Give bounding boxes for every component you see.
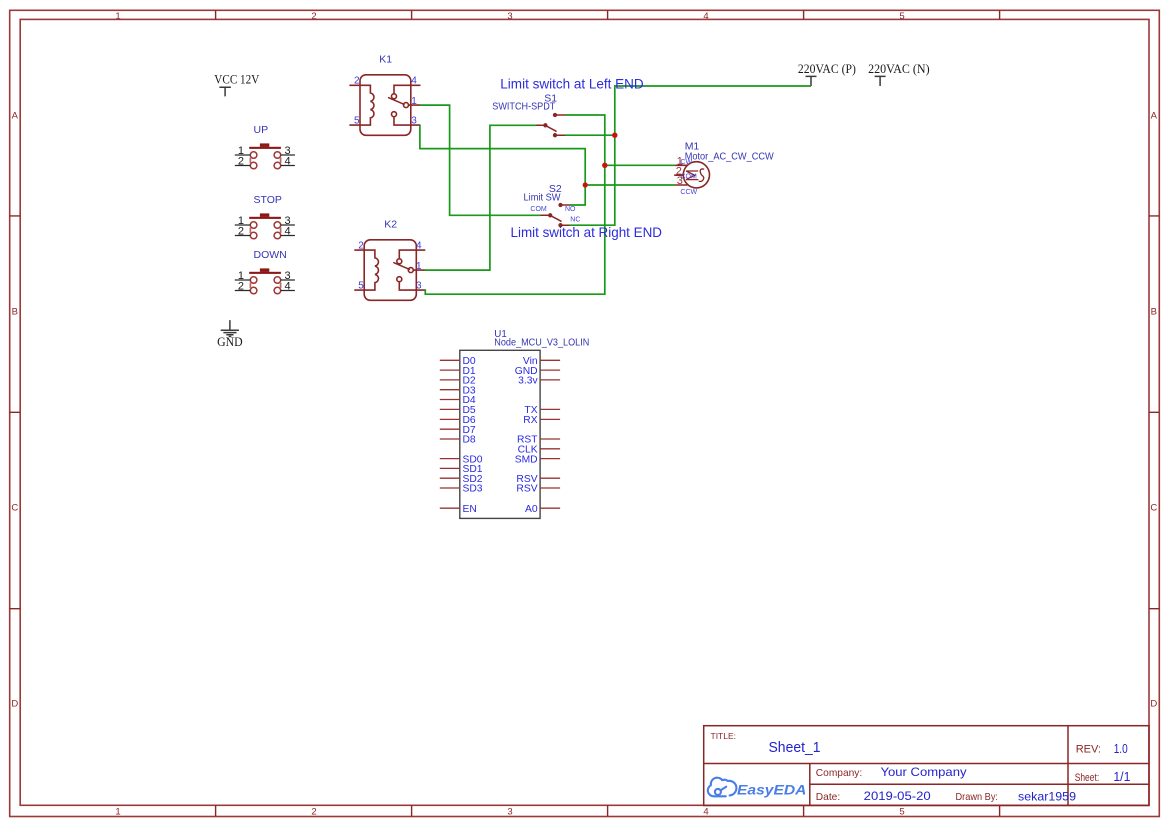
svg-text:COM: COM xyxy=(530,206,547,213)
svg-text:Sheet_1: Sheet_1 xyxy=(769,740,821,756)
ruler numbers bottom xyxy=(115,807,904,818)
svg-text:2: 2 xyxy=(238,225,244,237)
svg-text:NC: NC xyxy=(570,216,580,223)
svg-text:Drawn By:: Drawn By: xyxy=(956,792,999,803)
svg-text:1: 1 xyxy=(411,96,417,107)
svg-text:VCC 12V: VCC 12V xyxy=(214,71,260,86)
svg-text:Sheet:: Sheet: xyxy=(1075,772,1100,784)
IC U1 left pin names xyxy=(463,356,483,515)
svg-text:1/1: 1/1 xyxy=(1113,770,1130,784)
IC U1 left pin leads xyxy=(440,360,460,508)
svg-text:4: 4 xyxy=(285,280,291,292)
svg-text:1: 1 xyxy=(416,261,422,272)
ruler ticks right xyxy=(1149,216,1159,609)
svg-text:B: B xyxy=(1151,307,1157,318)
svg-text:3: 3 xyxy=(507,807,512,818)
svg-text:5: 5 xyxy=(899,11,904,22)
svg-text:Company:: Company: xyxy=(816,768,862,779)
svg-text:4: 4 xyxy=(703,807,708,818)
ruler ticks top xyxy=(216,10,1000,19)
motor M1 pin numbers xyxy=(676,156,683,187)
wire S1 COM to K2.1 xyxy=(425,125,536,270)
wire node to M1.1 xyxy=(605,164,675,166)
svg-text:EasyEDA: EasyEDA xyxy=(737,781,806,797)
switch S1 SPDT xyxy=(536,114,565,137)
svg-text:1.0: 1.0 xyxy=(1114,742,1128,756)
svg-text:5: 5 xyxy=(354,116,360,127)
TITLEBLOCK xyxy=(704,726,1149,806)
svg-text:A: A xyxy=(1151,111,1158,122)
svg-text:2019-05-20: 2019-05-20 xyxy=(864,789,931,803)
svg-text:EN: EN xyxy=(463,504,477,515)
svg-text:STOP: STOP xyxy=(254,194,282,206)
pushbutton UP xyxy=(235,124,295,169)
VCC symbol xyxy=(219,87,231,96)
svg-text:NO: NO xyxy=(565,206,576,213)
wire S1 NO to M1.1 to K2.3 xyxy=(425,115,605,294)
junction node M1.3 net xyxy=(583,182,588,187)
svg-text:2: 2 xyxy=(238,155,244,167)
IC U1 body xyxy=(460,350,540,518)
svg-text:SWITCH-SPDT: SWITCH-SPDT xyxy=(492,100,555,112)
svg-text:220VAC (P): 220VAC (P) xyxy=(798,61,856,76)
pushbutton STOP xyxy=(235,194,295,239)
wire S1 NC to 220VAC P xyxy=(565,86,811,135)
220VAC (N) symbol xyxy=(875,76,886,86)
EasyEDA logo cloud xyxy=(708,778,737,797)
svg-text:2: 2 xyxy=(311,11,316,22)
svg-text:K1: K1 xyxy=(379,53,392,65)
svg-text:UP: UP xyxy=(254,124,269,136)
svg-text:3: 3 xyxy=(507,11,512,22)
IC U1 right pin leads xyxy=(540,360,560,508)
svg-text:A: A xyxy=(12,111,19,122)
WIRES xyxy=(420,86,811,294)
svg-text:220VAC (N): 220VAC (N) xyxy=(868,61,930,76)
relay K1 pin numbers xyxy=(354,76,417,127)
wire K1.3 to S2 NO xyxy=(420,125,585,205)
svg-text:Your Company: Your Company xyxy=(881,765,967,779)
svg-text:Limit switch at Right END: Limit switch at Right END xyxy=(511,224,663,240)
relay K2 body xyxy=(355,240,425,300)
svg-text:4: 4 xyxy=(285,225,291,237)
MOTOR xyxy=(674,141,774,196)
svg-text:D: D xyxy=(11,699,18,710)
svg-text:C: C xyxy=(1150,503,1157,514)
title block grid xyxy=(704,726,1149,806)
wire K1.1 to S2 COM xyxy=(420,105,541,215)
wire node to M1.3 xyxy=(585,184,675,186)
svg-text:3: 3 xyxy=(411,116,417,127)
svg-text:3: 3 xyxy=(416,281,422,292)
relay K1 body xyxy=(350,75,420,136)
svg-text:COM: COM xyxy=(681,173,698,180)
svg-text:sekar1959: sekar1959 xyxy=(1018,789,1076,803)
ruler ticks bottom xyxy=(216,805,1000,816)
pushbutton DOWN xyxy=(235,249,295,294)
svg-text:B: B xyxy=(12,307,18,318)
svg-text:CW: CW xyxy=(680,159,692,166)
svg-text:Motor_AC_CW_CCW: Motor_AC_CW_CCW xyxy=(685,151,774,163)
junction node P net xyxy=(612,133,617,138)
POWER SYMBOLS xyxy=(214,61,929,349)
svg-text:RX: RX xyxy=(523,415,537,426)
svg-text:2: 2 xyxy=(238,280,244,292)
svg-text:2: 2 xyxy=(354,76,360,87)
svg-text:D: D xyxy=(1150,699,1157,710)
ruler ticks left xyxy=(10,216,21,609)
svg-text:5: 5 xyxy=(358,281,364,292)
svg-text:Date:: Date: xyxy=(816,792,840,803)
svg-text:4: 4 xyxy=(285,155,291,167)
svg-text:TITLE:: TITLE: xyxy=(711,731,737,741)
switch S2 SPDT xyxy=(541,204,571,227)
ruler letters right xyxy=(1150,111,1157,710)
svg-text:K2: K2 xyxy=(384,218,397,230)
svg-text:4: 4 xyxy=(416,241,422,252)
svg-text:2: 2 xyxy=(311,807,316,818)
U1 xyxy=(440,329,590,518)
svg-text:2: 2 xyxy=(358,241,364,252)
svg-text:3.3v: 3.3v xyxy=(518,376,538,387)
svg-text:DOWN: DOWN xyxy=(254,249,287,261)
svg-text:SMD: SMD xyxy=(515,454,538,465)
svg-text:4: 4 xyxy=(703,11,708,22)
ANNOT xyxy=(500,76,662,240)
BUTTONS xyxy=(235,124,295,294)
svg-text:Limit switch at Left END: Limit switch at Left END xyxy=(500,76,643,92)
wire node to S2 NC xyxy=(569,135,614,225)
junction node M1.1 net xyxy=(602,163,607,168)
svg-text:1: 1 xyxy=(115,11,120,22)
svg-text:SD3: SD3 xyxy=(463,484,483,495)
svg-text:1: 1 xyxy=(115,807,120,818)
motor M1 body xyxy=(674,162,709,188)
ruler numbers top xyxy=(115,11,904,22)
svg-text:C: C xyxy=(11,503,18,514)
svg-text:A0: A0 xyxy=(525,504,538,515)
relay K2 pin numbers xyxy=(358,241,422,292)
svg-text:CCW: CCW xyxy=(680,189,697,196)
switch S2 pin names xyxy=(530,206,580,223)
svg-text:D8: D8 xyxy=(463,435,476,446)
svg-text:Node_MCU_V3_LOLIN: Node_MCU_V3_LOLIN xyxy=(494,338,589,349)
ruler letters left xyxy=(11,111,18,710)
svg-text:GND: GND xyxy=(217,334,243,349)
RELAYS xyxy=(350,53,425,300)
svg-text:Limit SW: Limit SW xyxy=(524,191,561,203)
svg-text:4: 4 xyxy=(411,76,417,87)
220VAC (P) symbol xyxy=(806,76,817,86)
ground GND symbol xyxy=(221,320,239,336)
svg-text:REV:: REV: xyxy=(1076,744,1101,756)
IC U1 right pin names xyxy=(515,356,539,515)
motor M1 pin names xyxy=(680,159,697,196)
svg-text:RSV: RSV xyxy=(516,484,537,495)
SWITCHES xyxy=(492,92,580,226)
svg-text:5: 5 xyxy=(899,807,904,818)
